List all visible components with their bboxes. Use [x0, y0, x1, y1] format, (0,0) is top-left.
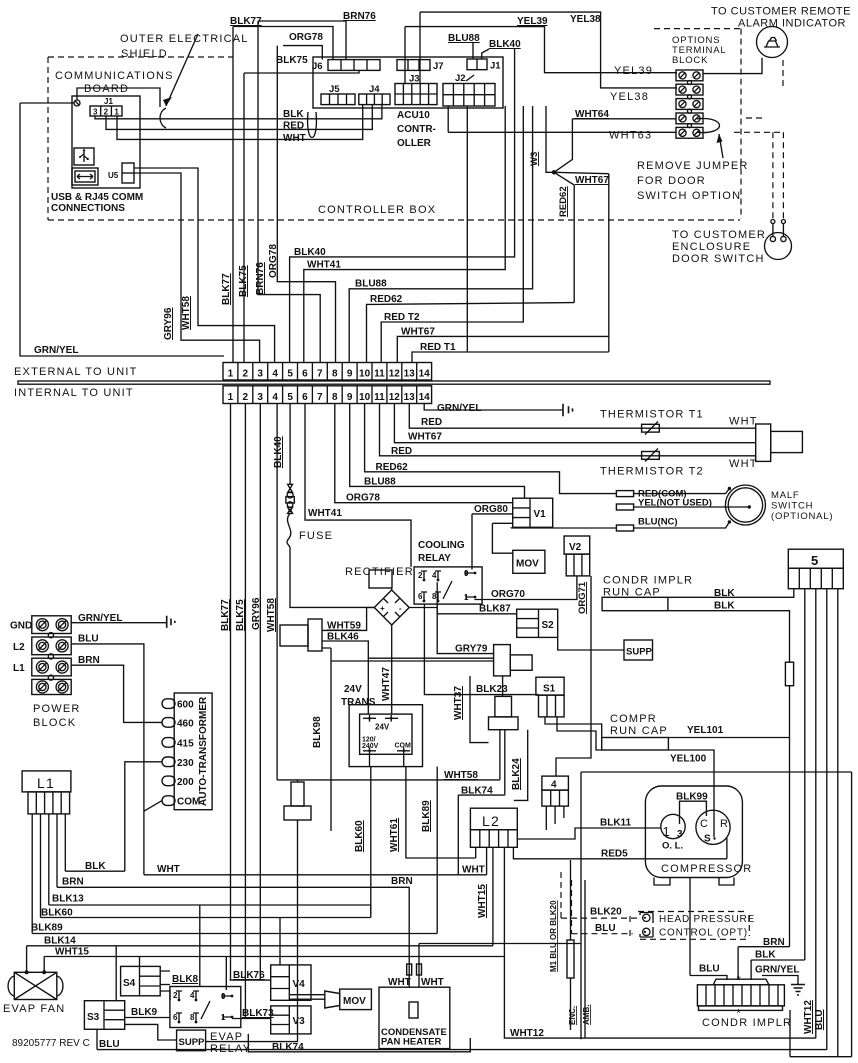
svg-text:FUSE: FUSE — [299, 530, 333, 542]
svg-text:RED: RED — [421, 417, 442, 428]
svg-text:C: C — [700, 818, 709, 830]
svg-text:GND: GND — [10, 621, 32, 632]
svg-text:WHT67: WHT67 — [575, 175, 609, 186]
svg-text:BLK89: BLK89 — [31, 923, 63, 934]
L1 connector — [22, 771, 71, 792]
svg-text:BLK77: BLK77 — [230, 16, 262, 27]
svg-text:YEL101: YEL101 — [687, 725, 724, 736]
svg-text:4: 4 — [432, 571, 437, 580]
5 block — [788, 549, 843, 568]
wire compressor S down — [689, 878, 691, 976]
svg-text:10: 10 — [359, 392, 371, 403]
unit boundary bar — [18, 381, 770, 384]
svg-text:RECTIFIER: RECTIFIER — [345, 566, 414, 578]
svg-text:600: 600 — [177, 700, 194, 711]
svg-text:3: 3 — [677, 829, 683, 840]
compressor C-R circle — [696, 810, 730, 844]
svg-text:12: 12 — [389, 369, 401, 380]
wire coil top to WHT58 — [297, 781, 299, 783]
connector J4 — [359, 94, 390, 105]
svg-text:WHT37: WHT37 — [453, 686, 464, 720]
svg-text:BLK: BLK — [85, 861, 106, 872]
svg-text:1: 1 — [228, 369, 234, 380]
svg-text:BLU88: BLU88 — [448, 33, 480, 44]
MOV wire — [492, 523, 513, 553]
svg-text:S: S — [704, 834, 711, 845]
svg-text:THERMISTOR T2: THERMISTOR T2 — [600, 466, 704, 478]
wire from board top to shield — [77, 88, 160, 107]
svg-text:ORG70: ORG70 — [491, 589, 525, 600]
svg-text:ORG78: ORG78 — [268, 244, 279, 278]
svg-text:J3: J3 — [409, 74, 420, 85]
svg-text:24V: 24V — [344, 684, 362, 695]
svg-text:7: 7 — [317, 369, 323, 380]
svg-text:8: 8 — [332, 369, 338, 380]
svg-text:(OPTIONAL): (OPTIONAL) — [771, 511, 833, 522]
svg-text:S1: S1 — [543, 684, 556, 695]
svg-text:*: * — [737, 974, 742, 986]
svg-text:3: 3 — [257, 369, 263, 380]
svg-text:FOR DOOR: FOR DOOR — [637, 175, 706, 187]
svg-text:9: 9 — [347, 369, 353, 380]
MOV box lower — [340, 989, 372, 1010]
svg-text:BLK87: BLK87 — [479, 604, 511, 615]
svg-text:RELAY: RELAY — [418, 553, 451, 564]
evap coil component — [291, 782, 304, 806]
dashed option boundary — [654, 29, 741, 219]
wire COM tap diagonal — [144, 801, 162, 812]
condr fan body — [713, 979, 769, 985]
svg-text:14: 14 — [419, 369, 431, 380]
svg-text:BLK11: BLK11 — [600, 818, 632, 829]
svg-text:4: 4 — [272, 392, 278, 403]
connector J1 (controller) — [467, 59, 487, 70]
svg-text:WHT41: WHT41 — [308, 508, 342, 519]
4 block — [542, 776, 569, 790]
svg-text:BLOCK: BLOCK — [33, 717, 76, 729]
external strip cells — [223, 363, 432, 381]
svg-text:2: 2 — [418, 571, 423, 580]
svg-text:230: 230 — [177, 758, 194, 769]
svg-text:5: 5 — [287, 392, 293, 403]
svg-text:BLK40: BLK40 — [489, 39, 521, 50]
malf switch circle — [725, 485, 765, 525]
svg-text:WHT61: WHT61 — [389, 818, 400, 852]
jumper arc rows4-5 — [697, 119, 720, 133]
svg-text:BLK9: BLK9 — [131, 1007, 158, 1018]
svg-text:COMPRESSOR: COMPRESSOR — [661, 863, 752, 875]
svg-text:YEL39: YEL39 — [614, 65, 653, 77]
transformer taps — [162, 699, 175, 709]
svg-text:WHT12: WHT12 — [803, 1000, 814, 1034]
cooling relay box — [414, 567, 482, 604]
svg-text:MALF: MALF — [771, 490, 800, 501]
svg-text:U5: U5 — [108, 171, 119, 180]
svg-text:6: 6 — [302, 369, 308, 380]
svg-text:EXTERNAL TO UNIT: EXTERNAL TO UNIT — [14, 366, 138, 378]
svg-text:SWITCH OPTION: SWITCH OPTION — [637, 190, 741, 202]
YEL(NOT USED) terminal — [616, 504, 633, 510]
svg-text:BLK: BLK — [714, 601, 735, 612]
lower coil (cap) — [495, 696, 512, 717]
S1 block — [536, 677, 564, 695]
svg-text:BLK77: BLK77 — [220, 599, 231, 631]
connector J3 — [395, 84, 437, 105]
svg-text:GRN/YEL: GRN/YEL — [437, 403, 481, 414]
svg-text:3: 3 — [257, 392, 263, 403]
svg-text:14: 14 — [419, 392, 431, 403]
svg-text:BLK24: BLK24 — [511, 758, 522, 790]
svg-text:9: 9 — [347, 392, 353, 403]
svg-text:WHT15: WHT15 — [477, 884, 488, 918]
wire COM down (WHT61) — [404, 754, 476, 858]
svg-text:8: 8 — [190, 1013, 195, 1022]
svg-text:1: 1 — [228, 392, 234, 403]
connector J1 cells 3|2|1 — [90, 106, 122, 116]
dashed shield bottom — [48, 219, 740, 221]
door switch contacts — [771, 220, 775, 224]
svg-text:OUTER ELECTRICAL: OUTER ELECTRICAL — [120, 33, 249, 45]
options terminal block — [676, 70, 703, 81]
svg-text:S3: S3 — [87, 1012, 100, 1023]
V2 block — [564, 536, 590, 554]
svg-text:8: 8 — [332, 392, 338, 403]
svg-text:COM: COM — [177, 797, 200, 808]
svg-text:MOV: MOV — [516, 559, 539, 570]
5 block pin wires — [805, 589, 838, 1057]
svg-text:BLU88: BLU88 — [355, 279, 387, 290]
svg-text:460: 460 — [177, 718, 194, 729]
connector J2 — [443, 84, 495, 107]
svg-text:S2: S2 — [542, 620, 555, 631]
svg-text:CONTR-: CONTR- — [397, 124, 436, 135]
fuse flex wire — [287, 513, 374, 607]
svg-text:WHT: WHT — [388, 977, 411, 988]
svg-text:BLK75: BLK75 — [276, 55, 308, 66]
svg-text:+: + — [380, 604, 385, 613]
SUPP box upper — [624, 640, 653, 660]
svg-text:BLK75: BLK75 — [238, 265, 249, 297]
wire from J2 pin to RED T1 — [466, 106, 468, 352]
sleeve resistor on BLK wire — [785, 662, 793, 686]
svg-text:5: 5 — [811, 553, 819, 568]
svg-text:AMB.: AMB. — [582, 1005, 591, 1025]
svg-text:WHT58: WHT58 — [266, 598, 277, 632]
cooling relay coil — [494, 645, 511, 676]
svg-text:BLK98: BLK98 — [312, 716, 323, 748]
svg-text:-: - — [399, 604, 402, 613]
svg-text:BLK77: BLK77 — [221, 273, 232, 305]
wire rectifier top — [391, 588, 393, 590]
outer shield dashed box — [47, 57, 49, 220]
svg-text:WHT: WHT — [462, 865, 485, 876]
svg-text:INTERNAL TO UNIT: INTERNAL TO UNIT — [14, 387, 134, 399]
svg-text:BLK75: BLK75 — [235, 599, 246, 631]
enclosure frame — [581, 772, 852, 1057]
svg-text:ORG71: ORG71 — [577, 581, 588, 614]
svg-text:BLOCK: BLOCK — [672, 55, 708, 66]
POWER BLOCK — [32, 616, 71, 634]
fuse symbol — [288, 484, 293, 492]
wire BLK comm J1 pin3 to J4 — [95, 105, 382, 119]
svg-text:TRANS: TRANS — [341, 697, 376, 708]
internal strip cells — [223, 386, 432, 404]
svg-text:L1: L1 — [13, 663, 25, 674]
U5 component — [122, 163, 134, 183]
svg-text:415: 415 — [177, 738, 194, 749]
svg-text:ALARM INDICATOR: ALARM INDICATOR — [738, 18, 846, 30]
svg-text:BLU: BLU — [699, 964, 720, 975]
wire S3 to SUPP — [125, 1024, 177, 1040]
SUPP box lower — [177, 1030, 206, 1051]
svg-text:USB & RJ45 COMM: USB & RJ45 COMM — [51, 192, 143, 203]
svg-text:240V: 240V — [362, 743, 379, 750]
svg-text:J1: J1 — [104, 97, 113, 106]
svg-text:BLK: BLK — [283, 109, 304, 120]
svg-text:2: 2 — [104, 108, 109, 117]
svg-text:COM: COM — [395, 743, 412, 750]
AUTO-TRANSFORMER box — [174, 693, 212, 810]
svg-text:J6: J6 — [312, 61, 323, 72]
svg-text:WHT12: WHT12 — [510, 1028, 544, 1039]
svg-text:ENCLOSURE: ENCLOSURE — [672, 241, 751, 253]
svg-text:WHT: WHT — [729, 416, 758, 428]
svg-text:11: 11 — [374, 392, 385, 403]
BLU(NC) terminal — [616, 525, 633, 531]
connector J5 — [321, 94, 355, 105]
svg-text:BLK14: BLK14 — [44, 936, 76, 947]
resistor vertical enc — [567, 940, 574, 978]
svg-text:THERMISTOR T1: THERMISTOR T1 — [600, 409, 704, 421]
svg-text:CONTROLLER BOX: CONTROLLER BOX — [318, 204, 436, 216]
ground symbol thermistor area — [563, 404, 573, 416]
thermistor plug — [756, 424, 771, 461]
svg-text:YEL39: YEL39 — [517, 16, 548, 27]
svg-text:ORG78: ORG78 — [289, 32, 323, 43]
svg-text:WHT47: WHT47 — [381, 667, 392, 701]
svg-text:V1: V1 — [534, 509, 547, 520]
wire RED comm J1 pin2 to J4 — [106, 105, 372, 130]
svg-text:DOOR SWITCH: DOOR SWITCH — [672, 253, 765, 265]
wire S3 to BLU — [96, 1029, 98, 1049]
svg-text:WHT: WHT — [157, 864, 180, 875]
svg-text:BLU: BLU — [99, 1039, 120, 1050]
ground fan — [791, 985, 805, 996]
svg-text:SUPP: SUPP — [179, 1037, 206, 1048]
svg-text:6: 6 — [302, 392, 308, 403]
svg-text:COOLING: COOLING — [418, 540, 465, 551]
svg-text:BOARD: BOARD — [84, 83, 129, 95]
svg-text:YEL100: YEL100 — [670, 754, 707, 765]
svg-text:CONDR IMPLR: CONDR IMPLR — [603, 575, 693, 587]
RED(COM) terminal — [616, 491, 633, 497]
leader arrow to shield — [166, 34, 198, 106]
svg-text:SUPP: SUPP — [626, 647, 653, 658]
compressor body — [645, 786, 742, 878]
svg-text:REMOVE JUMPER: REMOVE JUMPER — [637, 160, 749, 172]
svg-text:BLU: BLU — [595, 923, 616, 934]
wire 120/240 down (BLK60) — [370, 754, 371, 913]
svg-text:BRN: BRN — [78, 655, 100, 666]
S1 wires to cap — [545, 717, 602, 738]
svg-text:WHT63: WHT63 — [609, 130, 652, 142]
svg-text:V3: V3 — [293, 1016, 306, 1027]
svg-text:TO CUSTOMER: TO CUSTOMER — [672, 229, 766, 241]
svg-text:GRY96: GRY96 — [163, 307, 174, 340]
svg-text:8: 8 — [432, 592, 437, 601]
svg-text:GRN/YEL: GRN/YEL — [34, 345, 78, 356]
svg-text:13: 13 — [404, 392, 416, 403]
controller inner box — [313, 57, 503, 108]
svg-text:7: 7 — [317, 392, 323, 403]
wire rectifier to relay — [409, 607, 437, 609]
svg-text:SHIELD: SHIELD — [121, 48, 168, 60]
svg-text:BLK8: BLK8 — [172, 974, 199, 985]
wire 230 tap to BLK — [125, 762, 162, 871]
svg-text:1: 1 — [114, 108, 119, 117]
MOV box upper — [513, 550, 545, 573]
svg-text:S4: S4 — [123, 978, 136, 989]
svg-text:3: 3 — [93, 108, 98, 117]
svg-text:BLK89: BLK89 — [421, 800, 432, 832]
4 block pins down — [546, 806, 564, 830]
svg-text:COMPR: COMPR — [610, 713, 657, 725]
ground symbol power — [167, 616, 175, 628]
rectifier diamond — [374, 590, 409, 625]
svg-text:BLU: BLU — [78, 634, 99, 645]
svg-text:BLU: BLU — [814, 1009, 825, 1030]
wire WHT12 vertical from L2 — [504, 957, 815, 1039]
internal col wires down — [231, 404, 261, 1019]
door switch — [765, 233, 792, 260]
svg-text:RED62: RED62 — [370, 294, 403, 305]
svg-text:BLK23: BLK23 — [476, 684, 508, 695]
svg-text:L1: L1 — [37, 775, 55, 791]
V4 block — [271, 965, 311, 1000]
svg-text:TO CUSTOMER REMOTE: TO CUSTOMER REMOTE — [711, 6, 851, 18]
svg-text:BLK40: BLK40 — [273, 436, 284, 468]
svg-text:HEAD PRESSURE: HEAD PRESSURE — [659, 914, 755, 925]
svg-text:2: 2 — [173, 991, 178, 1000]
svg-text:BLK13: BLK13 — [52, 894, 84, 905]
small shield loop near board — [160, 108, 166, 128]
svg-text:2: 2 — [243, 369, 249, 380]
24V pins — [363, 715, 398, 722]
svg-text:COMMUNICATIONS: COMMUNICATIONS — [55, 70, 174, 82]
svg-text:R: R — [720, 818, 729, 830]
head pressure control box — [630, 912, 749, 940]
MOV wires lower — [289, 995, 325, 1000]
svg-text:BLK73: BLK73 — [242, 1008, 274, 1019]
svg-text:WHT: WHT — [421, 977, 444, 988]
svg-text:PAN HEATER: PAN HEATER — [381, 1037, 441, 1048]
alarm indicator circle — [757, 27, 788, 58]
svg-text:CONNECTIONS: CONNECTIONS — [51, 203, 125, 214]
node W3 junction — [552, 170, 556, 174]
EVAP relay box — [170, 987, 241, 1028]
svg-text:L2: L2 — [13, 642, 25, 653]
svg-text:WHT: WHT — [283, 133, 306, 144]
svg-text:GRY79: GRY79 — [455, 644, 488, 655]
S4 block — [121, 966, 161, 995]
RJ45 icon box — [72, 168, 98, 185]
svg-text:RED62: RED62 — [558, 186, 569, 217]
cable loop symbol on comm wires — [308, 112, 317, 138]
communications board box — [72, 96, 140, 188]
svg-text:RED5: RED5 — [601, 849, 628, 860]
svg-text:GRN/YEL: GRN/YEL — [755, 965, 799, 976]
dashed wires to door switch — [734, 118, 783, 132]
svg-text:ORG78: ORG78 — [346, 493, 380, 504]
L1 pin wires down — [32, 814, 65, 934]
svg-text:6: 6 — [418, 592, 423, 601]
S4 wires right — [160, 971, 170, 1000]
svg-text:RED: RED — [283, 121, 304, 132]
svg-text:WHT67: WHT67 — [408, 432, 442, 443]
svg-text:YEL38: YEL38 — [570, 14, 601, 25]
svg-text:V4: V4 — [293, 979, 306, 990]
board mounting screw — [74, 100, 80, 106]
svg-text:5: 5 — [287, 369, 293, 380]
svg-text:10: 10 — [359, 369, 371, 380]
svg-text:J7: J7 — [433, 61, 444, 72]
svg-text:MOV: MOV — [343, 996, 366, 1007]
svg-text:RUN CAP: RUN CAP — [610, 725, 668, 737]
wire coil bottom — [502, 676, 504, 697]
svg-text:CONTROL (OPT): CONTROL (OPT) — [659, 928, 748, 939]
compressor 1-3 circle — [661, 814, 685, 838]
svg-text:BLU(NC): BLU(NC) — [638, 517, 678, 528]
svg-text:J1: J1 — [490, 61, 501, 72]
svg-text:2: 2 — [243, 392, 249, 403]
condensate heater box — [379, 987, 450, 1048]
svg-text:ENC.: ENC. — [568, 1006, 577, 1025]
wire alarm to block row1 — [703, 58, 762, 74]
svg-text:24V: 24V — [375, 723, 390, 732]
USB icon box — [74, 148, 94, 165]
svg-text:12: 12 — [389, 392, 401, 403]
wire BLK46 branch to coil — [368, 657, 493, 659]
svg-text:J2: J2 — [455, 73, 466, 84]
svg-text:WHT: WHT — [729, 458, 758, 470]
svg-text:EVAP FAN: EVAP FAN — [3, 1003, 65, 1015]
svg-text:4: 4 — [272, 369, 278, 380]
connector J6 — [328, 60, 380, 71]
svg-text:4: 4 — [551, 780, 557, 791]
svg-text:89205777 REV C: 89205777 REV C — [12, 1038, 90, 1049]
svg-text:YEL38: YEL38 — [610, 91, 649, 103]
WHT59 BLK46 connector — [280, 625, 308, 646]
svg-text:6: 6 — [173, 1013, 178, 1022]
svg-text:AUTO-TRANSFORMER: AUTO-TRANSFORMER — [198, 696, 209, 806]
svg-text:J4: J4 — [369, 84, 380, 95]
GRN/YEL wire from board down left side — [20, 103, 224, 356]
L2 pin1 wire — [475, 847, 477, 858]
svg-text:W3: W3 — [529, 152, 540, 166]
svg-text:L2: L2 — [482, 813, 500, 829]
connector J7 — [397, 60, 430, 71]
svg-text:BRN76: BRN76 — [255, 262, 266, 295]
svg-text:V2: V2 — [569, 542, 582, 553]
V3 block — [271, 1006, 311, 1034]
svg-text:BLK20: BLK20 — [590, 907, 622, 918]
svg-text:1: 1 — [663, 824, 671, 839]
EVAP FAN symbol — [14, 972, 57, 999]
svg-text:SWITCH: SWITCH — [771, 501, 813, 512]
svg-text:WHT41: WHT41 — [307, 260, 341, 271]
svg-text:O. L.: O. L. — [662, 841, 683, 852]
svg-text:BRN76: BRN76 — [343, 11, 376, 22]
